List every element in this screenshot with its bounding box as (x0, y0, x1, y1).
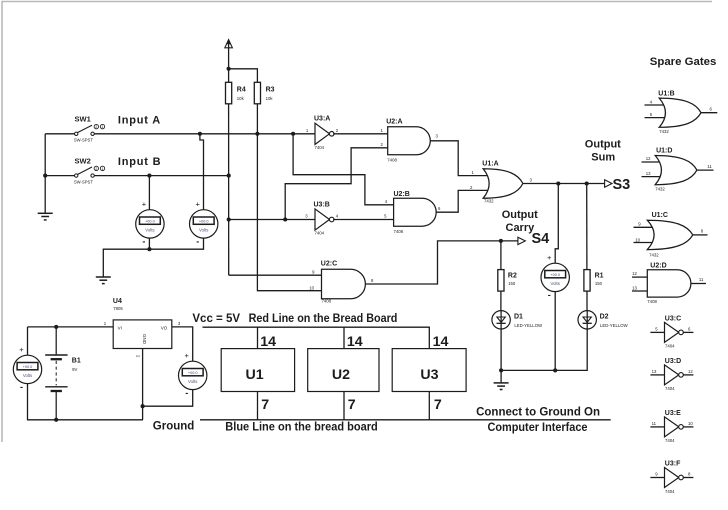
svg-text:Output: Output (502, 209, 538, 221)
node: B - R4 junction (227, 174, 231, 178)
node: sum voltmeter tap (556, 181, 560, 185)
wire: vcc drop U2 pin14 (343, 327, 345, 348)
svg-text:R4: R4 (237, 87, 246, 94)
wire: U3 pin7 drop (428, 392, 430, 420)
switch SW2 (SW-SPST) (74, 156, 105, 184)
svg-text:-: - (185, 388, 188, 398)
wire: U3:F input stub (650, 477, 664, 479)
svg-text:VI: VI (118, 326, 122, 331)
svg-text:+: + (547, 253, 552, 262)
svg-text:7432: 7432 (659, 129, 669, 134)
ic power box U3 (392, 349, 466, 392)
and-gate U2:C (7408) (322, 269, 366, 299)
svg-text:14: 14 (433, 334, 449, 350)
wire: R1 to D2 (586, 291, 588, 311)
svg-text:10: 10 (635, 238, 640, 243)
svg-text:7: 7 (261, 397, 269, 413)
svg-text:Ground: Ground (153, 421, 195, 433)
svg-text:7432: 7432 (655, 187, 665, 192)
svg-text:7408: 7408 (394, 229, 404, 234)
svg-text:SW-SPST: SW-SPST (74, 138, 93, 143)
node: voltmeter minus junction (147, 247, 151, 251)
svg-text:-: - (196, 237, 199, 247)
ground (led rail) (494, 383, 509, 390)
svg-text:Volts: Volts (199, 228, 208, 233)
svg-text:VO: VO (161, 326, 168, 331)
wire: U1:D out stub (697, 169, 714, 171)
wire: U1:D pin12 stub (642, 161, 661, 163)
svg-text:SW2: SW2 (75, 156, 91, 165)
wire: U4 GND pin down (142, 349, 144, 420)
wire: B to U2:A pin2 (285, 148, 388, 220)
svg-text:Connect to Ground On: Connect to Ground On (476, 407, 600, 419)
wire: U1:D pin13 stub (642, 176, 661, 178)
switch SW1 (SW-SPST) (74, 115, 105, 143)
wire: U3:B out to U2:B pin5 (333, 219, 393, 221)
inverter U3:B (7404) (315, 209, 330, 230)
resistor R3 10k (254, 82, 260, 104)
svg-text:1: 1 (101, 167, 103, 171)
svg-text:D1: D1 (514, 313, 523, 320)
svg-text:U2: U2 (332, 367, 350, 383)
svg-text:Input B: Input B (118, 156, 161, 168)
wire: SW1 left stub (45, 133, 74, 135)
led D2 LED-YELLOW (578, 311, 596, 329)
svg-text:U3:D: U3:D (665, 358, 681, 365)
wire: sum output net (523, 183, 605, 185)
svg-text:U1:B: U1:B (658, 91, 674, 98)
svg-text:S3: S3 (613, 177, 631, 193)
svg-text:Volts: Volts (551, 281, 560, 286)
wire: to battery voltmeter plus (27, 327, 29, 355)
wire: U3:F output stub (683, 477, 693, 479)
svg-text:14: 14 (347, 334, 363, 350)
or-gate U1:D (7432) (655, 156, 697, 185)
svg-text:150: 150 (595, 281, 603, 286)
resistor R4 10k (226, 82, 232, 104)
wire: U2:D pin13 stub (632, 290, 647, 292)
svg-text:2: 2 (95, 167, 97, 171)
or-gate U1:A (7432) (483, 169, 523, 198)
svg-text:13: 13 (652, 369, 657, 374)
svg-text:7404: 7404 (665, 386, 675, 391)
output terminal S3 (605, 180, 612, 187)
wire: U2:A out to U1:A pin1 (430, 141, 488, 176)
node: vcc split (227, 67, 231, 71)
wire: U1:B pin5 stub (645, 117, 665, 119)
wire: Input A net horizontal (94, 133, 315, 135)
svg-text:7: 7 (348, 397, 356, 413)
resistor R1 150 (584, 270, 590, 292)
ground (voltmeters) (96, 277, 111, 284)
node: B branch to U2:A (283, 217, 287, 221)
svg-text:-: - (548, 290, 551, 300)
svg-text:Red Line on the Bread Board: Red Line on the Bread Board (249, 313, 398, 325)
svg-text:U1:C: U1:C (652, 212, 668, 219)
node: battery plus junction (54, 325, 58, 329)
wire: U3:C output stub (683, 331, 693, 333)
svg-text:R1: R1 (595, 272, 604, 279)
wire: vcc drop U1 pin14 (257, 327, 259, 348)
svg-text:Spare Gates: Spare Gates (650, 56, 716, 68)
svg-text:Sum: Sum (591, 152, 615, 164)
svg-text:7432: 7432 (484, 199, 494, 204)
svg-text:10k: 10k (237, 96, 245, 101)
wire: U1:C pin9 stub (634, 226, 653, 228)
svg-text:SW1: SW1 (75, 115, 91, 124)
svg-text:+00.0: +00.0 (188, 371, 198, 375)
svg-text:R3: R3 (266, 87, 275, 94)
svg-text:Carry: Carry (506, 222, 536, 234)
svg-text:+00.0: +00.0 (199, 219, 209, 223)
svg-text:11: 11 (699, 277, 704, 282)
wire: battery plus to U4 VI (28, 326, 114, 328)
wire: D2 to ground rail (501, 329, 587, 370)
node: A - branch junction (291, 132, 295, 136)
wire: sum to R1 (586, 184, 588, 270)
voltmeter (Input B) (136, 200, 164, 247)
wire: sum voltmeter minus down (554, 292, 556, 371)
svg-text:11: 11 (707, 164, 712, 169)
svg-text:Computer Interface: Computer Interface (488, 422, 588, 434)
node: A - R3 junction (255, 132, 259, 136)
regulator U4 7805 (113, 320, 172, 349)
svg-text:12: 12 (646, 156, 651, 161)
or-gate U1:C (7432) (647, 220, 693, 249)
node: U4 gnd / voltmeter junction (141, 404, 145, 408)
wire: U2:D pin12 stub (632, 276, 647, 278)
wire: U3:D input stub (650, 374, 664, 376)
svg-text:+00.0: +00.0 (145, 219, 155, 223)
inverter U3:D (7404) (665, 365, 679, 385)
svg-text:7: 7 (434, 397, 442, 413)
svg-text:7404: 7404 (665, 438, 675, 443)
svg-text:Volts: Volts (188, 379, 197, 384)
wire: U3:E input stub (650, 426, 664, 428)
svg-text:-: - (20, 382, 23, 392)
svg-text:14: 14 (260, 334, 276, 350)
svg-text:U3:C: U3:C (665, 316, 681, 323)
node: sum R1 tap (585, 181, 589, 185)
svg-text:2: 2 (95, 125, 97, 129)
wire: 5V voltmeter minus to gnd (143, 390, 193, 407)
svg-text:+: + (185, 351, 190, 360)
svg-text:Output: Output (585, 138, 621, 150)
wire: battery voltmeter minus to bottom rail (28, 384, 144, 420)
node: voltmeter minus junction on led rail (553, 368, 557, 372)
svg-text:Blue Line on the bread board: Blue Line on the bread board (225, 422, 377, 434)
wire: sum to voltmeter (555, 184, 558, 264)
svg-text:10k: 10k (266, 96, 274, 101)
wire: R3 down / A to U2:C pin10 (257, 104, 321, 291)
wire: B to U3:B input (229, 219, 315, 221)
ground (switch common) (38, 213, 53, 220)
led D1 LED-YELLOW (492, 311, 510, 329)
power vcc arrow (225, 40, 233, 48)
wire: Input B net horizontal (94, 175, 228, 177)
svg-text:13: 13 (646, 171, 651, 176)
wire: U4 VO to 5V voltmeter (172, 327, 193, 361)
wire: voltmeter B minus stub (148, 238, 150, 249)
svg-text:9V: 9V (72, 367, 77, 372)
svg-text:LED-YELLOW: LED-YELLOW (600, 323, 629, 328)
node: A - voltmeter tap (198, 132, 202, 136)
svg-text:U4: U4 (113, 298, 122, 305)
svg-text:U3:B: U3:B (314, 201, 330, 208)
wire: B to U2:C pin9 (229, 274, 322, 276)
svg-text:+: + (196, 200, 201, 209)
wire: vcc arrow down to R4 (228, 41, 230, 82)
svg-text:12: 12 (688, 369, 693, 374)
svg-text:U3:F: U3:F (665, 461, 681, 468)
svg-text:+: + (142, 200, 147, 209)
wire: U1 pin7 drop (257, 392, 259, 420)
and-gate U2:B (7408) (394, 198, 437, 226)
svg-text:7408: 7408 (322, 299, 332, 304)
svg-text:Volts: Volts (145, 228, 154, 233)
voltmeter (battery 9V) (13, 345, 41, 392)
svg-text:+: + (19, 345, 24, 354)
inverter U3:A (7404) (315, 123, 330, 144)
svg-text:U3: U3 (420, 367, 438, 383)
svg-text:U3:A: U3:A (314, 116, 330, 123)
svg-text:U2:A: U2:A (386, 119, 402, 126)
wire: U2:C out to S4 (365, 241, 518, 284)
svg-text:U3:E: U3:E (665, 410, 681, 417)
wire: U1:B out stub (701, 112, 717, 114)
svg-text:+00.0: +00.0 (23, 365, 33, 369)
svg-text:U2:B: U2:B (394, 191, 410, 198)
svg-text:13: 13 (632, 286, 637, 291)
wire: voltmeter A drop with jog (200, 134, 204, 210)
svg-text:7404: 7404 (315, 145, 325, 150)
or-gate U1:B (7432) (659, 98, 701, 127)
svg-text:GND: GND (142, 334, 147, 345)
node: B - voltmeter tap (147, 174, 151, 178)
wire: U2:B out to U1:A pin2 (436, 190, 489, 212)
svg-text:-: - (142, 237, 145, 247)
svg-text:150: 150 (508, 281, 516, 286)
wire: U1:C pin10 stub (634, 242, 653, 244)
voltmeter (Input A) (190, 200, 218, 247)
wire: D1 to ground (500, 329, 502, 383)
wire: U2 pin7 drop (343, 392, 345, 420)
svg-text:U1: U1 (246, 367, 264, 383)
node: B net split (227, 217, 231, 221)
svg-text:R2: R2 (508, 272, 517, 279)
svg-text:7805: 7805 (113, 306, 123, 311)
svg-text:+00.0: +00.0 (550, 273, 560, 277)
svg-text:U2:C: U2:C (321, 261, 337, 268)
wire: R2 to D1 (500, 291, 502, 311)
svg-text:U2:D: U2:D (650, 263, 666, 270)
svg-text:1: 1 (101, 125, 103, 129)
wire: vcc rail (203, 327, 430, 348)
and-gate U2:A (7408) (388, 127, 431, 155)
wire: bottom ground rail (200, 419, 611, 421)
wire: U1:B pin4 stub (645, 104, 665, 106)
svg-text:SW-SPST: SW-SPST (74, 179, 93, 184)
wire: R4 down / B net vertical (228, 104, 230, 275)
svg-text:Vcc = 5V: Vcc = 5V (192, 313, 240, 325)
svg-text:12: 12 (632, 271, 637, 276)
node: SW2 left junction (43, 174, 47, 178)
node: battery minus junction (54, 418, 58, 422)
wire: U2:D out stub (691, 283, 706, 285)
svg-text:7432: 7432 (649, 253, 659, 258)
svg-text:LED-YELLOW: LED-YELLOW (514, 323, 543, 328)
wire: voltmeter minus rail to ground (103, 238, 203, 277)
wire: vcc to R3 (229, 69, 258, 83)
and-gate U2:D (7408) (647, 270, 691, 297)
output terminal S4 (518, 237, 525, 244)
wire: U3:C input stub (650, 331, 664, 333)
svg-text:10: 10 (309, 286, 314, 291)
svg-text:7404: 7404 (665, 489, 675, 494)
resistor R2 150 (498, 270, 504, 292)
svg-text:7404: 7404 (315, 231, 325, 236)
inverter U3:C (7404) (665, 322, 679, 342)
ic power box U1 (221, 349, 294, 392)
svg-text:7408: 7408 (387, 158, 397, 163)
svg-text:Volts: Volts (23, 373, 32, 378)
svg-text:B1: B1 (72, 358, 81, 365)
svg-text:U1:A: U1:A (482, 161, 498, 168)
wire: SW2 left stub (45, 175, 74, 177)
battery B1 9V (45, 327, 67, 420)
inverter U3:E (7404) (665, 417, 679, 437)
ic power box U2 (308, 349, 379, 392)
wire: ground rail left vertical (44, 134, 46, 214)
node: led ground junction (499, 368, 503, 372)
wire: voltmeter B drop (148, 176, 150, 210)
node: carry R2 tap (499, 239, 503, 243)
wire: U3:E output stub (683, 426, 693, 428)
wire: carry to R2 (500, 241, 502, 270)
svg-text:10: 10 (688, 421, 693, 426)
wire: A to U2:B pin4 (293, 134, 394, 205)
wire: U3:D output stub (683, 374, 693, 376)
svg-text:D2: D2 (600, 313, 609, 320)
svg-text:11: 11 (652, 421, 657, 426)
inverter U3:F (7404) (665, 468, 679, 488)
svg-text:Input A: Input A (118, 114, 161, 126)
voltmeter (Sum) (541, 253, 569, 300)
wire: U3:A out to U2:A pin1 (333, 133, 388, 135)
svg-text:U1:D: U1:D (656, 148, 672, 155)
svg-text:7408: 7408 (647, 299, 657, 304)
wire: U1:C out stub (693, 234, 708, 236)
voltmeter (5V out) (179, 351, 207, 398)
svg-text:7404: 7404 (665, 344, 675, 349)
